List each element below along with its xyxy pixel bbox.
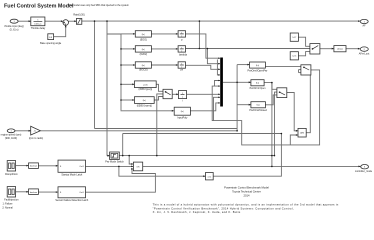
svg-text:Startup Mode Latch: Startup Mode Latch xyxy=(61,173,83,176)
svg-text:f(u): f(u) xyxy=(181,111,184,113)
svg-text:Throttle delay: Throttle delay xyxy=(31,27,46,30)
svg-text:This model uses only fuel 98%: This model uses only fuel 98% that injec… xyxy=(68,4,129,7)
svg-text:f(u): f(u) xyxy=(256,83,259,85)
svg-text:throttle input (deg): throttle input (deg) xyxy=(4,25,24,28)
svg-text:(900, 1100): (900, 1100) xyxy=(5,137,17,140)
svg-text:(rpm to rad/s): (rpm to rad/s) xyxy=(29,137,44,140)
svg-text:(0585 f(norm)): (0585 f(norm)) xyxy=(137,104,152,107)
svg-text:(5, 61 s): (5, 61 s) xyxy=(10,29,19,32)
svg-text:z: z xyxy=(181,51,182,53)
svg-text:controller_mode: controller_mode xyxy=(355,170,373,173)
svg-text:2: Normal: 2: Normal xyxy=(2,206,13,209)
svg-text:InputPoly: InputPoly xyxy=(177,117,188,120)
svg-text:Sensor Failure Detection Latch: Sensor Failure Detection Latch xyxy=(55,199,88,202)
svg-text:"Powertrain Control Verificati: "Powertrain Control Verification Benchma… xyxy=(153,206,294,210)
svg-text:engine speed (rpm): engine speed (rpm) xyxy=(1,134,22,137)
svg-text:f(u): f(u) xyxy=(143,100,146,102)
svg-text:f(u): f(u) xyxy=(142,34,145,36)
svg-text:z: z xyxy=(181,36,182,38)
svg-text:X. Jin, J. V. Deshmukh, J. Kap: X. Jin, J. V. Deshmukh, J. Kapinski, K. … xyxy=(153,210,241,214)
svg-text:Powertrain Control Benchmark M: Powertrain Control Benchmark Model xyxy=(224,186,269,190)
svg-text:PwrOrml Open: PwrOrml Open xyxy=(250,87,266,90)
svg-text:f(u): f(u) xyxy=(256,65,259,67)
svg-text:cnvt: cnvt xyxy=(208,175,212,178)
svg-text:f(u): f(u) xyxy=(142,49,145,51)
svg-text:Base opening angle: Base opening angle xyxy=(40,42,62,45)
svg-text:PwrOrml/OpenPwr: PwrOrml/OpenPwr xyxy=(248,70,268,73)
svg-text:(O2F2): (O2F2) xyxy=(140,53,148,56)
svg-text:abs(u): abs(u) xyxy=(337,49,343,51)
svg-text:boolean: boolean xyxy=(30,166,37,168)
svg-text:2014: 2014 xyxy=(244,193,250,197)
svg-text:lambda: lambda xyxy=(179,54,188,57)
svg-text:(EGO2): (EGO2) xyxy=(139,69,147,72)
svg-text:DisruptNom: DisruptNom xyxy=(5,173,18,176)
svg-text:Rate(1/30): Rate(1/30) xyxy=(73,14,84,17)
svg-text:Toyota Technical Center: Toyota Technical Center xyxy=(232,189,261,193)
svg-text:FaultInjection: FaultInjection xyxy=(4,199,19,202)
svg-text:1: Failure: 1: Failure xyxy=(3,203,14,206)
svg-text:boolean: boolean xyxy=(30,192,37,194)
svg-text:-K-: -K- xyxy=(34,131,37,133)
svg-text:PwrOrml/Closed: PwrOrml/Closed xyxy=(249,109,267,112)
svg-text:(0585 f(pwr)): (0585 f(pwr)) xyxy=(139,88,153,91)
svg-text:AF: AF xyxy=(362,24,366,27)
svg-text:(EGO): (EGO) xyxy=(140,39,147,42)
svg-text:f(u): f(u) xyxy=(142,65,145,67)
svg-text:Fuel Control System Model: Fuel Control System Model xyxy=(4,3,74,9)
svg-text:0.05s+1: 0.05s+1 xyxy=(34,24,42,26)
svg-text:z: z xyxy=(182,96,183,98)
svg-text:A/M: A/M xyxy=(300,132,304,135)
svg-text:f(u): f(u) xyxy=(257,105,260,107)
svg-text:AFref_out: AFref_out xyxy=(359,52,370,55)
svg-text:This is a model of a hybrid au: This is a model of a hybrid automaton wi… xyxy=(153,202,339,206)
svg-text:Pwr Mode Switch: Pwr Mode Switch xyxy=(105,161,124,164)
